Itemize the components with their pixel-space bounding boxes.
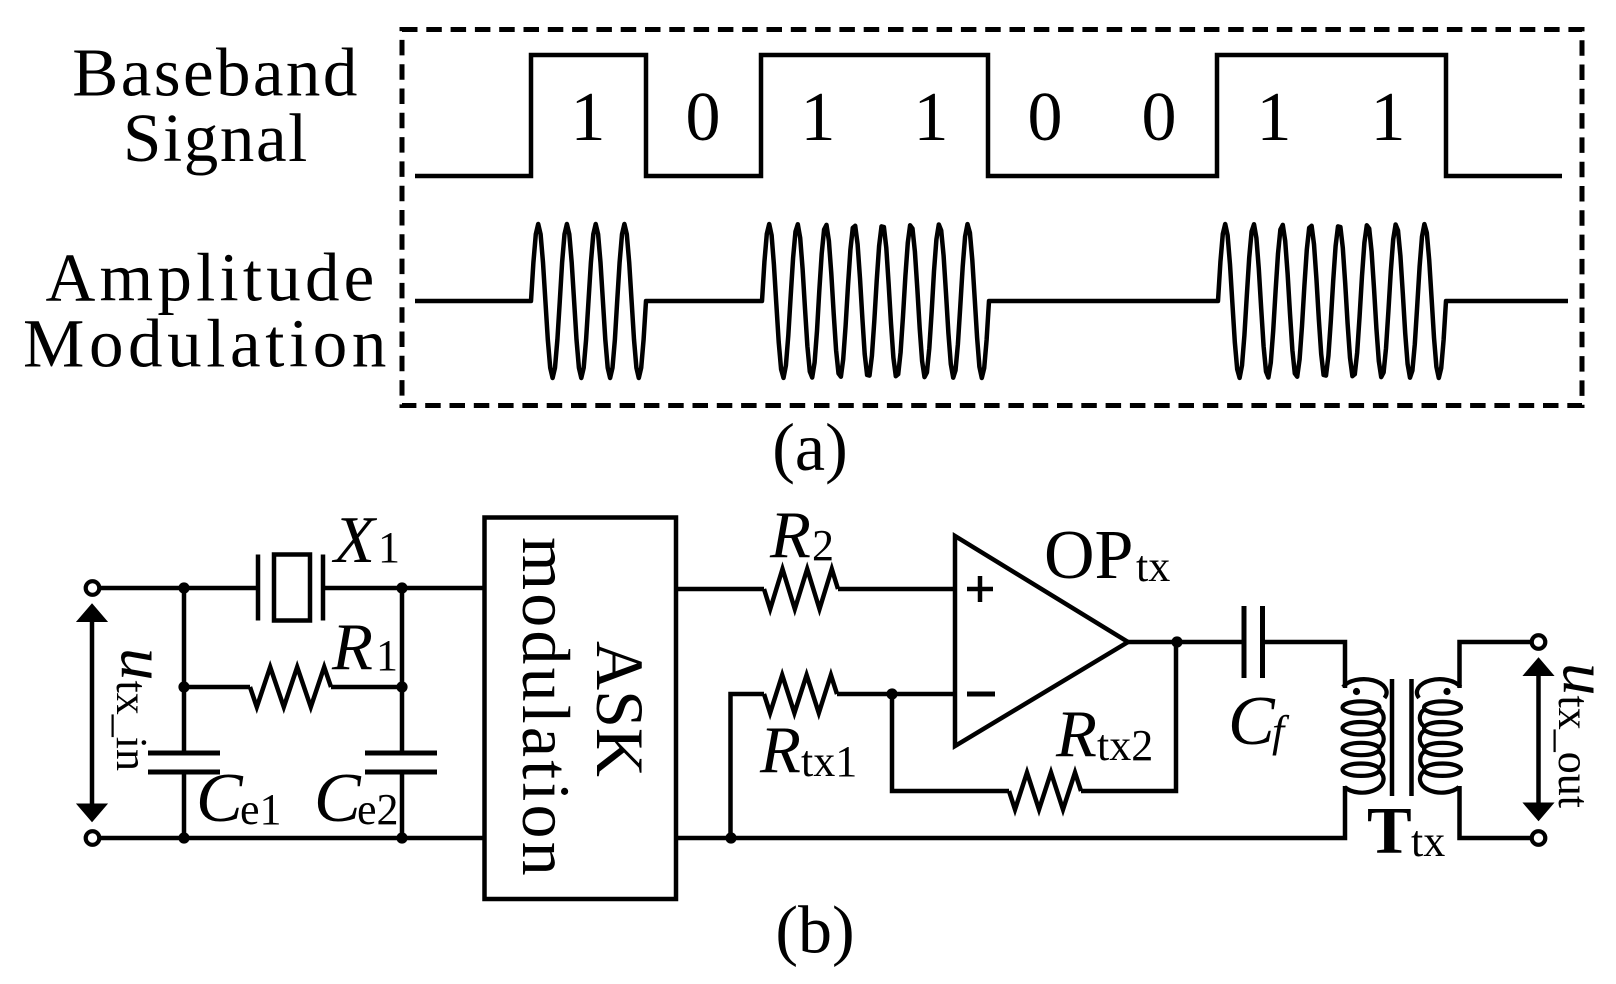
wire bottom rail left bbox=[99, 836, 485, 841]
svg-text:modulation: modulation bbox=[508, 537, 584, 879]
svg-text:C: C bbox=[196, 760, 244, 837]
svg-text:Modulation: Modulation bbox=[23, 306, 391, 382]
resistor Rtx2 bbox=[1009, 773, 1081, 810]
svg-text:0: 0 bbox=[1028, 79, 1063, 156]
svg-text:tx: tx bbox=[1411, 817, 1445, 866]
svg-text:T: T bbox=[1367, 794, 1412, 868]
u_tx_out arrow bbox=[1524, 658, 1554, 821]
resistor R2 bbox=[764, 569, 838, 609]
svg-text:(b): (b) bbox=[775, 892, 854, 968]
node inverting input junction bbox=[886, 688, 897, 699]
svg-text:C: C bbox=[1228, 683, 1276, 760]
svg-text:e2: e2 bbox=[357, 785, 399, 834]
capacitor Ce1 bbox=[148, 753, 220, 772]
wire op-amp output bbox=[1128, 640, 1244, 645]
dashed frame of panel (a) bbox=[402, 30, 1582, 406]
wire top rail right of crystal bbox=[323, 586, 485, 591]
input terminal top bbox=[86, 581, 100, 595]
crystal X1 bbox=[258, 555, 323, 621]
output terminal top bbox=[1532, 635, 1546, 649]
transformer primary polarity dot bbox=[1353, 688, 1360, 695]
svg-text:tx: tx bbox=[1136, 542, 1170, 591]
node op-amp output junction bbox=[1171, 636, 1182, 647]
ASK modulation block bbox=[485, 518, 677, 900]
svg-text:1: 1 bbox=[1257, 79, 1292, 156]
output terminal bottom bbox=[1532, 831, 1546, 845]
bit digits 1 0 1 1 0 0 1 1 bbox=[571, 79, 1406, 156]
svg-text:1: 1 bbox=[376, 631, 398, 680]
node R1 left junction bbox=[178, 681, 189, 692]
capacitor Cf bbox=[1244, 606, 1263, 678]
wire Rtx1 to op-amp - bbox=[837, 692, 953, 697]
label Baseband Signal bbox=[72, 35, 359, 177]
svg-text:R: R bbox=[769, 498, 811, 572]
op-amp + sign bbox=[967, 576, 993, 602]
svg-text:ASK: ASK bbox=[582, 641, 658, 777]
svg-text:Amplitude: Amplitude bbox=[46, 240, 379, 316]
transformer Ttx secondary coil bbox=[1417, 679, 1461, 793]
svg-text:R: R bbox=[1055, 697, 1097, 771]
wire right branch vertical x=402 bbox=[400, 588, 405, 753]
node B crystal right junction bbox=[396, 582, 407, 593]
node A top-left junction bbox=[178, 582, 189, 593]
transformer core bbox=[1392, 679, 1412, 796]
svg-text:1: 1 bbox=[801, 79, 836, 156]
node R1 right junction bbox=[396, 681, 407, 692]
svg-text:tx1: tx1 bbox=[801, 737, 857, 786]
transformer secondary polarity dot bbox=[1443, 688, 1450, 695]
svg-text:2: 2 bbox=[812, 521, 834, 570]
svg-text:Signal: Signal bbox=[123, 100, 309, 176]
input terminal bottom bbox=[86, 831, 100, 845]
node Rtx1 bottom junction bbox=[725, 832, 736, 843]
resistor R1 bbox=[250, 667, 331, 707]
wire R1 leads bbox=[184, 685, 402, 690]
wire Cf to transformer bbox=[1263, 642, 1346, 688]
svg-text:0: 0 bbox=[686, 79, 721, 156]
amplitude modulation waveform bbox=[415, 224, 1568, 378]
svg-text:X: X bbox=[331, 503, 378, 577]
label Amplitude Modulation bbox=[23, 240, 391, 382]
node Ce2 bottom junction bbox=[396, 832, 407, 843]
node bottom-left junction bbox=[178, 832, 189, 843]
svg-text:R: R bbox=[759, 713, 801, 787]
svg-text:tx2: tx2 bbox=[1097, 721, 1153, 770]
svg-text:R: R bbox=[331, 610, 373, 684]
svg-text:(a): (a) bbox=[772, 409, 847, 485]
svg-text:e1: e1 bbox=[240, 785, 282, 834]
wire R2 to op-amp + bbox=[838, 587, 953, 592]
svg-text:0: 0 bbox=[1142, 79, 1177, 156]
wire left branch vertical x=184 bbox=[182, 588, 187, 753]
resistor Rtx1 bbox=[764, 675, 837, 713]
svg-text:C: C bbox=[314, 760, 362, 837]
svg-text:1: 1 bbox=[1371, 79, 1406, 156]
wire Rtx1 left leg bbox=[731, 694, 765, 838]
wire bottom rail right bbox=[676, 786, 1345, 838]
transformer Ttx primary coil bbox=[1343, 679, 1387, 793]
feedback wire right riser bbox=[1081, 642, 1176, 791]
svg-text:OP: OP bbox=[1044, 517, 1133, 594]
feedback wire minus node down bbox=[892, 694, 1009, 791]
wire ASK to R2 bbox=[676, 587, 764, 592]
wire top rail left bbox=[99, 586, 258, 591]
capacitor Ce2 bbox=[365, 753, 437, 772]
svg-text:1: 1 bbox=[571, 79, 606, 156]
op-amp - sign bbox=[967, 692, 995, 697]
op-amp OPtx bbox=[955, 536, 1128, 746]
svg-text:1: 1 bbox=[914, 79, 949, 156]
u_tx_in arrow bbox=[77, 604, 107, 822]
wire secondary to output terminals bbox=[1460, 642, 1532, 688]
svg-text:1: 1 bbox=[378, 523, 400, 572]
baseband square wave bbox=[415, 55, 1562, 176]
